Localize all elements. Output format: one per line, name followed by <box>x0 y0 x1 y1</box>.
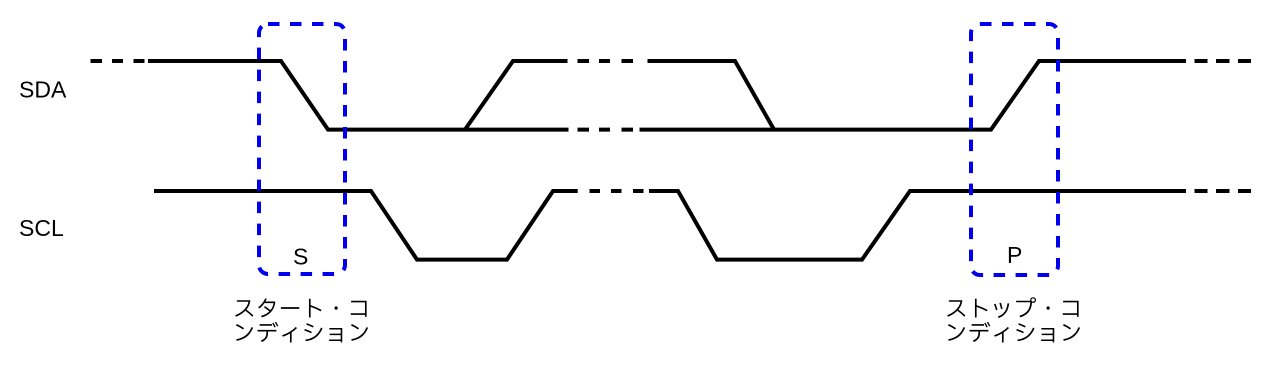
wire SDA break dashes low rail <box>578 128 634 132</box>
svg-text:P: P <box>1007 242 1022 268</box>
node stop condition box (blue dashed) <box>971 24 1058 275</box>
wire SDA high, fall at start condition, low rail to break <box>148 61 569 130</box>
wire SCL break dashes <box>590 189 644 193</box>
wire SDA right dashed high segment <box>1195 59 1252 63</box>
node start condition box (blue dashed) <box>259 24 345 274</box>
wire SCL high, first low pulse, high to break <box>154 191 578 260</box>
wire SCL right dashed segment <box>1195 189 1252 193</box>
wire SDA high rail after break, fall to low <box>648 61 775 130</box>
svg-text:SDA: SDA <box>19 77 67 103</box>
wire SCL second low pulse, rise at stop, high to right <box>649 191 1186 260</box>
svg-text:SCL: SCL <box>19 215 64 241</box>
node start condition caption line2 ンディション <box>236 322 368 343</box>
wire SDA rising branch to high rail before break <box>465 61 568 130</box>
node start condition caption line1 スタート・コ <box>235 298 366 317</box>
node stop condition caption line1 ストップ・コ <box>947 297 1078 318</box>
node stop condition caption line2 ンディション <box>948 322 1080 343</box>
wire SDA low rail after break, rise at stop, high to right <box>640 61 1187 130</box>
wire SDA left dashed high segment <box>91 59 145 63</box>
wire SDA break dashes high rail <box>578 59 634 63</box>
svg-text:S: S <box>293 244 308 270</box>
